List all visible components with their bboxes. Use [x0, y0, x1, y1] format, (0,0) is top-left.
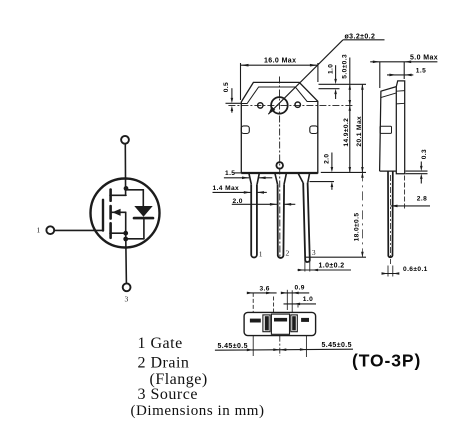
svg-text:18.0±0.5: 18.0±0.5	[353, 213, 360, 242]
wire diode cathode branch horizontal	[126, 189, 144, 191]
bottom view centerline	[279, 336, 281, 356]
svg-text:1.4 Max: 1.4 Max	[213, 185, 240, 192]
MOSFET symbol body circle Q1	[91, 179, 160, 248]
dimension 16.0 Max top	[241, 64, 318, 66]
side view metal tab	[396, 81, 404, 174]
dimension 16.0 extension lines	[240, 63, 242, 100]
wire diode anode branch horizontal	[126, 238, 144, 240]
wire source terminal lead	[125, 233, 128, 283]
channel segment top	[109, 190, 112, 201]
lead 3 shoulder	[298, 173, 310, 183]
svg-text:(TO-3P): (TO-3P)	[352, 351, 421, 371]
wire drain terminal to symbol	[124, 144, 126, 195]
mounting hole	[271, 97, 288, 114]
bottom view center bar	[274, 318, 287, 322]
svg-text:1.5: 1.5	[416, 67, 426, 74]
body diode D1 triangle	[134, 206, 152, 217]
svg-text:2.0: 2.0	[324, 154, 331, 164]
right small hole	[295, 102, 300, 107]
channel segment middle	[109, 206, 112, 219]
lead end reference line	[305, 256, 366, 258]
body stub arrow (substrate arrow)	[112, 209, 120, 216]
body bottom extension left	[234, 172, 242, 174]
node drain junction dot	[124, 186, 129, 191]
bottom view left inner slot outline	[263, 315, 270, 332]
svg-text:1.0±0.2: 1.0±0.2	[319, 262, 345, 269]
svg-text:5.0±0.3: 5.0±0.3	[342, 54, 349, 79]
body diode D1 cathode bar	[134, 217, 153, 220]
svg-text:14.9±0.2: 14.9±0.2	[343, 118, 350, 147]
bottom view center box outline	[271, 314, 289, 334]
svg-text:16.0 Max: 16.0 Max	[264, 58, 296, 65]
svg-text:0.5: 0.5	[223, 82, 230, 92]
lead 2 shoulder	[275, 173, 287, 184]
front view outline TO-3P	[241, 82, 317, 172]
svg-text:1: 1	[37, 226, 41, 235]
bottom view outer body	[244, 312, 316, 335]
svg-text:5.45±0.5: 5.45±0.5	[322, 342, 352, 349]
lead 1	[251, 184, 257, 257]
svg-text:1 Gate: 1 Gate	[138, 335, 183, 352]
left small hole	[258, 103, 263, 108]
lead 2	[278, 184, 285, 258]
node source junction dot	[123, 231, 128, 236]
wire gate lead	[55, 229, 103, 231]
bottom view slot centerline left	[252, 336, 254, 356]
svg-text:5.45±0.5: 5.45±0.5	[218, 343, 248, 350]
svg-text:0.6±0.1: 0.6±0.1	[403, 266, 428, 273]
lead 3	[303, 183, 310, 262]
bottom small hole	[276, 162, 283, 169]
svg-text:2 Drain: 2 Drain	[138, 355, 190, 372]
wire body stub	[112, 211, 126, 213]
wire diode anode branch vertical	[143, 218, 145, 239]
bottom view left slot bar	[250, 319, 261, 323]
svg-text:1.0: 1.0	[327, 64, 334, 74]
svg-text:1.0: 1.0	[303, 296, 313, 303]
side view lead	[388, 171, 393, 257]
side view inner chamfer line	[381, 93, 397, 98]
svg-text:3: 3	[312, 248, 316, 257]
bottom view slot centerline right	[305, 336, 307, 357]
left side notch	[241, 126, 249, 134]
svg-text:(Dimensions in mm): (Dimensions in mm)	[131, 403, 265, 419]
side view notch box	[380, 126, 392, 133]
wire drain stub	[110, 194, 126, 196]
side view tab hole line lower	[396, 102, 404, 105]
wire body-to-source vertical	[125, 212, 127, 233]
svg-text:2.8: 2.8	[417, 195, 427, 202]
wire source stub	[110, 232, 126, 234]
channel segment bottom	[109, 223, 112, 238]
svg-text:5.0 Max: 5.0 Max	[410, 55, 438, 62]
bottom view right inner slot outline	[291, 315, 298, 332]
front view inner top step lines	[241, 87, 317, 104]
lead 1 shoulder	[249, 173, 259, 184]
svg-text:20.1 Max: 20.1 Max	[356, 116, 363, 147]
horizontal centerline through holes	[228, 104, 352, 106]
svg-text:2: 2	[286, 249, 290, 258]
svg-text:3 Source: 3 Source	[138, 386, 198, 403]
side view tab hole line upper	[396, 90, 404, 93]
svg-text:1: 1	[259, 250, 263, 259]
top edge extension line right	[319, 83, 367, 85]
source terminal circle (bottom)	[123, 283, 131, 291]
right side notch	[310, 126, 318, 134]
side view plastic body outline	[380, 87, 397, 172]
body bottom edge extension right	[321, 171, 366, 173]
drain terminal circle (top)	[121, 136, 129, 144]
side view lead centerline	[389, 175, 391, 264]
vertical centerline front view	[279, 77, 281, 258]
svg-text:3: 3	[125, 295, 129, 304]
bottom view right inner slot bar	[292, 316, 296, 330]
bottom view right slot bar	[301, 318, 309, 322]
svg-text:0.3: 0.3	[421, 149, 428, 159]
front view bottom edge emphasis	[241, 172, 317, 174]
wire diode cathode branch vertical	[142, 190, 144, 207]
node diode anode junction dot	[123, 237, 128, 242]
gate bar G	[102, 200, 104, 231]
svg-text:3.6: 3.6	[260, 285, 270, 292]
gate terminal circle (left)	[46, 226, 54, 234]
svg-text:0.9: 0.9	[295, 284, 305, 291]
bottom view left inner slot bar	[265, 316, 269, 330]
